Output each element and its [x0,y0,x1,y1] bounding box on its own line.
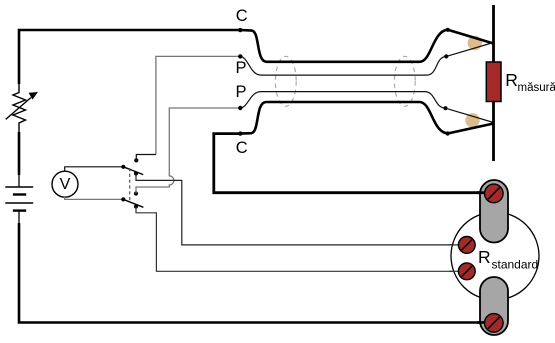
wire: voltmeter bottom to switch pole 2 [65,197,124,199]
svg-text:C: C [236,139,248,157]
clip boot bottom (tan) [465,113,479,127]
switch pole 2 throw contact up (node P) [134,191,138,195]
R_standard top post (gray pill) [480,180,508,243]
svg-text:R: R [478,247,491,267]
svg-text:măsură: măsură [518,82,555,94]
cable conductor C1 (thick) [240,30,447,62]
switch pole 2 pivot [121,197,125,201]
wire: C2 lead over top post to screw [477,191,488,194]
voltmeter V [52,171,78,197]
svg-text:C: C [236,7,248,25]
switch mechanical link (dashed) [129,168,131,201]
node C bottom junction dot [238,131,242,135]
junction dot P2 right [443,106,447,110]
switch pole 1 throw contact up (node P) [134,158,138,162]
rheostat (variable resistor) [6,84,38,132]
svg-text:P: P [236,83,247,101]
label R_masura [505,70,555,94]
R_standard body (circle) [451,212,539,300]
wire: sense lead 1 over body to screw [449,244,460,246]
wire: battery loop (top, left, bottom sides) [19,30,488,323]
label R_standard [478,247,538,272]
resistor R_masura body [486,62,501,102]
wire: sense lead 2 over body to screw [449,270,460,272]
junction dot C1 right [446,28,450,32]
svg-text:R: R [505,70,518,90]
wire: P1 clip lead to R_masura top terminal [446,43,493,57]
wire: C2 clip lead to R_masura bottom terminal [448,124,494,134]
node C top junction dot [238,28,242,32]
wire: current lead C2 from node C down to R_standard top post [214,134,487,193]
svg-text:P: P [236,59,247,77]
R_masura terminal bar [492,5,495,161]
wire: P2 sense lead from node P, hops over crossing wire, to switch pole2 up contact [136,108,240,194]
cable tie ellipse 1 [275,56,296,106]
clip boot top (tan) [468,36,482,50]
cable tie ellipse 2 [394,56,415,106]
wire: voltmeter top to switch pole 1 [65,167,124,172]
wire: switch pole2 down contact to R_standard sense post 2 [136,207,459,272]
battery [3,175,35,224]
R_standard sense post 2 screw [458,263,475,280]
switch pole 1 throw contact down [134,171,138,175]
cable conductor P2 (thin) [240,92,445,109]
switch pole 1 pivot [121,165,125,169]
node P top junction dot [238,54,242,58]
wire: P2 clip lead to R_masura bottom terminal [446,108,494,122]
switch pole 2 blade [123,199,143,207]
wire: battery loop lead over bottom post to screw [477,321,488,324]
R_standard bottom post (gray pill) [480,277,508,335]
wire: switch pole1 down contact to R_standard sense post 1 [136,174,459,245]
switch pole 2 throw contact down [134,204,138,208]
R_standard top post screw [485,184,504,203]
R_standard bottom post screw [485,314,504,333]
wire: P1 sense lead from node P to switch contact [156,56,240,154]
wire: jog into switch pole1 up contact [136,155,156,161]
cable conductor P1 (thin) [240,56,446,75]
wire: C1 clip lead to R_masura top terminal [448,30,494,44]
svg-text:V: V [60,176,71,193]
switch pole 1 blade [123,167,143,175]
junction dot P1 right [444,54,448,58]
R_standard sense post 1 screw [458,237,475,254]
junction dot C2 right [446,131,450,135]
svg-text:standard: standard [492,258,539,272]
cable conductor C2 (thick) [240,102,447,134]
node P bottom junction dot [238,106,242,110]
